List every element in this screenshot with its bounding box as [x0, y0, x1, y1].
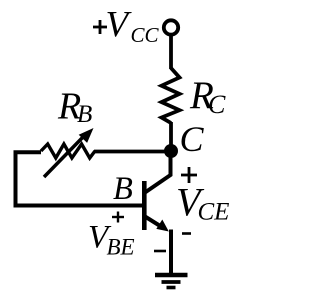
resistor RC [162, 68, 180, 123]
arrow of variable resistor RB [44, 128, 94, 177]
wire RB left, down, to base [16, 152, 143, 205]
wire RC bottom to node C [169, 122, 173, 152]
svg-text:C: C [180, 119, 205, 159]
svg-text:V: V [106, 5, 133, 46]
label VCE plus sign [181, 167, 197, 183]
svg-text:CC: CC [131, 23, 160, 47]
ground [155, 273, 188, 277]
transistor Q1 base bar [142, 181, 147, 230]
svg-text:B: B [77, 101, 92, 128]
label VBE plus sign [112, 212, 124, 223]
label VBE minus sign [154, 250, 166, 253]
wire emitter to ground [169, 230, 173, 276]
svg-text:BE: BE [107, 235, 135, 260]
wire terminal to RC top [169, 34, 173, 69]
svg-text:C: C [208, 90, 226, 119]
resistor RB [41, 144, 95, 158]
wire node C to RB right [94, 150, 171, 154]
label +VCC plus sign [93, 20, 107, 34]
svg-text:B: B [113, 171, 133, 207]
transistor Q1 emitter lead [145, 217, 161, 227]
transistor Q1 emitter arrowhead [156, 220, 169, 232]
node C junction dot [164, 144, 178, 158]
transistor Q1 collector lead [145, 152, 171, 193]
label VCE minus sign [182, 232, 191, 235]
terminal +VCC open circle [164, 20, 178, 34]
svg-text:CE: CE [198, 198, 230, 225]
